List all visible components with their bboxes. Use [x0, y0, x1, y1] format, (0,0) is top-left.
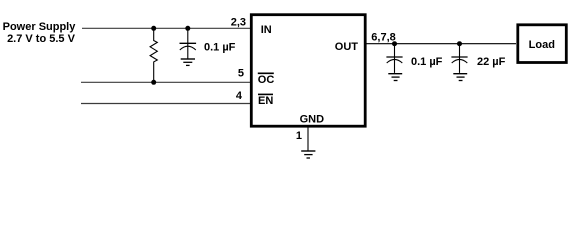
wire OC (pin 5 line): [81, 81, 250, 83]
svg-text:GND: GND: [300, 113, 325, 125]
resistor R1 (pull-up between IN and OC lines): [150, 30, 157, 81]
ground (IC GND pin): [301, 151, 315, 158]
svg-text:5: 5: [238, 67, 244, 79]
svg-text:6,7,8: 6,7,8: [371, 31, 395, 43]
pin label OC (with overbar): [258, 73, 275, 86]
svg-text:0.1 µF: 0.1 µF: [204, 41, 236, 53]
svg-text:22 µF: 22 µF: [477, 56, 506, 68]
svg-text:0.1 µF: 0.1 µF: [411, 56, 443, 68]
node junction dot (input cap on IN wire): [185, 26, 190, 31]
ground (output cap 2): [453, 74, 467, 81]
svg-text:1: 1: [296, 130, 302, 142]
node junction dot (resistor bottom on OC wire): [151, 80, 156, 85]
node junction dot (output cap 1): [392, 41, 397, 46]
pin label EN (with overbar): [258, 94, 273, 107]
svg-text:IN: IN: [261, 24, 272, 36]
capacitor C1 0.1 uF (input bypass): [180, 30, 197, 59]
node junction dot (resistor top on IN wire): [151, 26, 156, 31]
ground (output cap 1): [388, 74, 402, 81]
wire GND lead: [307, 127, 309, 151]
wire IN (power supply to pin IN): [82, 27, 250, 29]
svg-text:EN: EN: [258, 95, 273, 107]
svg-text:OC: OC: [258, 74, 275, 86]
node VIN label (power supply): [3, 21, 77, 45]
svg-text:2.7 V to 5.5 V: 2.7 V to 5.5 V: [7, 33, 76, 45]
node junction dot (output cap 2): [457, 41, 462, 46]
capacitor C3 22 uF (output bulk): [451, 45, 467, 73]
svg-text:OUT: OUT: [335, 41, 359, 53]
wire EN (pin 4 line): [81, 103, 250, 105]
wire OUT (pin OUT to load): [366, 43, 516, 45]
IC U1 (voltage regulator) body: [251, 15, 365, 127]
capacitor C2 0.1 uF (output): [386, 45, 402, 73]
svg-text:Load: Load: [529, 39, 555, 51]
load block: [518, 25, 567, 63]
svg-text:2,3: 2,3: [231, 16, 246, 28]
svg-text:Power Supply: Power Supply: [3, 21, 77, 33]
ground (input cap): [181, 59, 195, 65]
svg-text:4: 4: [236, 90, 243, 102]
